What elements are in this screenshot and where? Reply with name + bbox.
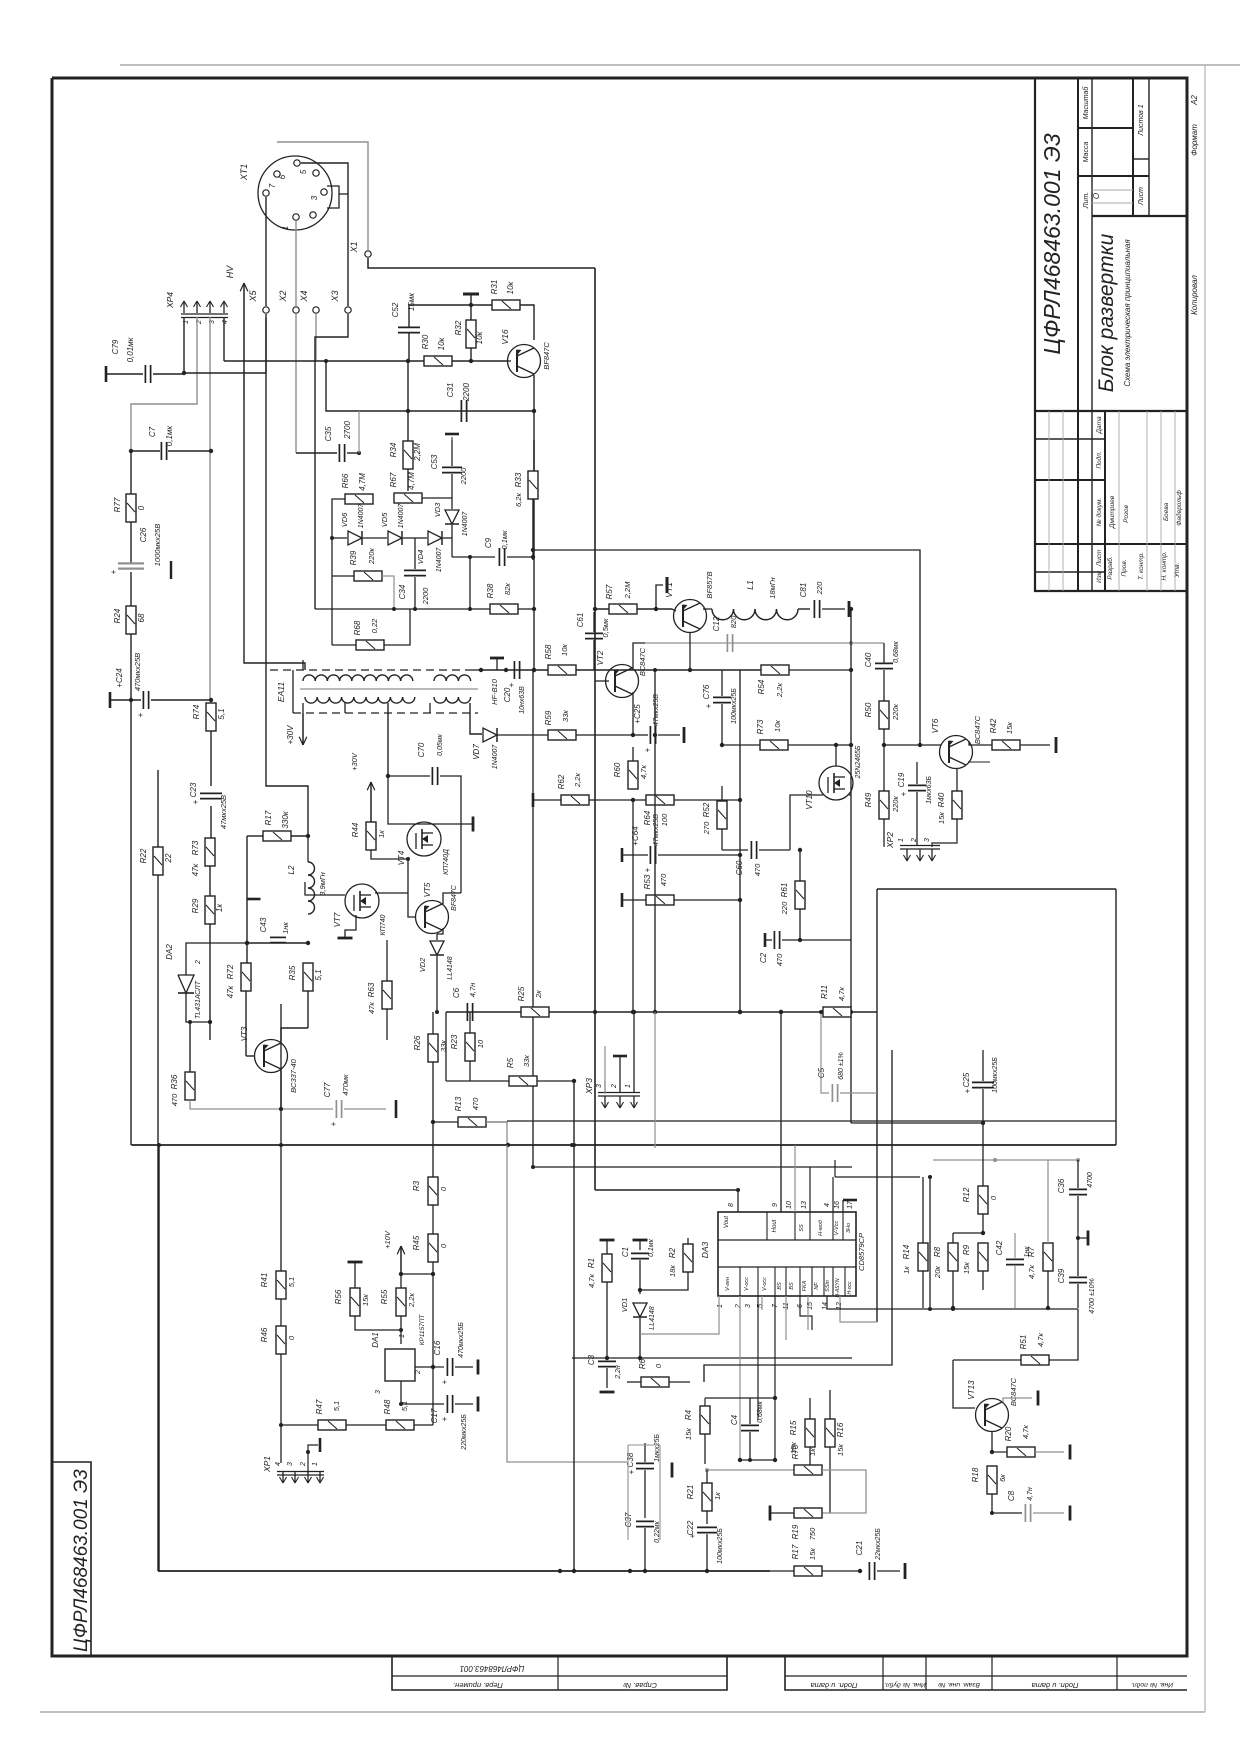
svg-text:R3: R3 bbox=[412, 1180, 421, 1191]
svg-text:Дмитриев: Дмитриев bbox=[1109, 495, 1116, 529]
wire bus y361 bbox=[224, 359, 508, 363]
wire FA11 tap5 to VD7 bbox=[470, 703, 482, 734]
wire R1 down bbox=[606, 1282, 608, 1358]
svg-text:R23: R23 bbox=[450, 1034, 459, 1049]
svg-text:С76: С76 bbox=[702, 684, 711, 699]
wire DA3 pin14 bbox=[826, 1296, 828, 1309]
svg-text:22мкх25Б: 22мкх25Б bbox=[875, 1528, 882, 1561]
svg-text:R60: R60 bbox=[613, 762, 622, 777]
XT1 pin (nc bottom) bbox=[310, 212, 316, 218]
resistor R1 bbox=[587, 1254, 612, 1288]
svg-text:15к: 15к bbox=[1005, 722, 1014, 734]
resistor R29 bbox=[191, 896, 224, 924]
capacitor C64 bbox=[622, 814, 742, 873]
wire FA11 top ends bbox=[473, 669, 478, 671]
svg-text:С43: С43 bbox=[259, 917, 268, 932]
svg-text:3: 3 bbox=[745, 1304, 752, 1308]
svg-text:68: 68 bbox=[137, 613, 146, 622]
svg-text:С70: С70 bbox=[417, 742, 426, 757]
resistor R66 bbox=[332, 473, 373, 530]
resistor R26 bbox=[413, 1034, 448, 1062]
diode VD6 bbox=[340, 503, 365, 545]
svg-text:Формат: Формат bbox=[1190, 124, 1199, 156]
svg-text:LL4148: LL4148 bbox=[649, 1306, 656, 1329]
ground C1 top bbox=[633, 1240, 648, 1250]
svg-text:R57: R57 bbox=[605, 584, 614, 599]
svg-text:1N4007: 1N4007 bbox=[398, 503, 405, 529]
wire DA3 pin7 bbox=[774, 1296, 776, 1460]
resistor R58 bbox=[544, 644, 576, 675]
capacitor C16 bbox=[433, 1322, 478, 1385]
svg-text:R73: R73 bbox=[756, 719, 765, 734]
svg-text:С53: С53 bbox=[430, 454, 439, 469]
svg-text:Подп. и дата: Подп. и дата bbox=[811, 1681, 858, 1690]
wire x892 long bbox=[704, 1050, 892, 1382]
svg-text:LL4148: LL4148 bbox=[447, 956, 454, 979]
svg-text:VT6: VT6 bbox=[931, 718, 940, 733]
svg-text:R1: R1 bbox=[587, 1258, 596, 1268]
svg-text:2,2М: 2,2М bbox=[413, 443, 422, 462]
svg-text:33к: 33к bbox=[522, 1055, 531, 1067]
capacitor C17 bbox=[401, 1395, 478, 1451]
svg-text:2: 2 bbox=[300, 1462, 307, 1467]
svg-text:2: 2 bbox=[911, 838, 918, 843]
resistor R6 bbox=[627, 1358, 690, 1387]
svg-text:+10V: +10V bbox=[383, 1230, 392, 1249]
svg-text:С8: С8 bbox=[1007, 1490, 1016, 1501]
svg-text:Х2: Х2 bbox=[278, 290, 288, 302]
wire XP2 links bbox=[884, 840, 957, 847]
svg-text:Разраб.: Разраб. bbox=[1106, 556, 1114, 580]
svg-text:10к: 10к bbox=[475, 330, 484, 344]
capacitor C35 bbox=[296, 411, 361, 462]
svg-text:Изм: Изм bbox=[1096, 570, 1103, 583]
wire x408 link bbox=[407, 361, 409, 411]
svg-text:6к: 6к bbox=[998, 1474, 1007, 1482]
svg-text:0: 0 bbox=[989, 1195, 998, 1200]
svg-text:R7: R7 bbox=[1027, 1246, 1036, 1257]
svg-text:SSin: SSin bbox=[825, 1280, 831, 1292]
svg-text:5: 5 bbox=[299, 169, 308, 174]
svg-text:С2: С2 bbox=[759, 952, 768, 963]
capacitor C7 bbox=[129, 425, 213, 460]
svg-text:С34: С34 bbox=[398, 584, 407, 599]
svg-text:R33: R33 bbox=[514, 472, 523, 487]
resistor R15 bbox=[789, 1398, 815, 1470]
wire y1123 row bbox=[851, 1122, 983, 1124]
wire V16 emitter to bus bbox=[533, 375, 535, 411]
margin note Kopiroval / Format A2 bbox=[1190, 95, 1199, 315]
wire y800 row bbox=[533, 793, 742, 807]
svg-text:2: 2 bbox=[735, 1304, 742, 1309]
wire VT5 collector-emitter bbox=[437, 893, 461, 934]
svg-text:О: О bbox=[1092, 193, 1101, 199]
svg-text:R51: R51 bbox=[1019, 1335, 1028, 1350]
wire x159 long bbox=[158, 1145, 160, 1571]
capacitor C6 bbox=[452, 983, 477, 1021]
svg-text:H-мод: H-мод bbox=[818, 1220, 824, 1236]
svg-text:ХР1: ХР1 bbox=[262, 1456, 272, 1473]
svg-text:VT7: VT7 bbox=[333, 912, 342, 927]
resistor R31 bbox=[471, 280, 534, 340]
ground C36 bbox=[1076, 1231, 1088, 1246]
svg-text:470: 470 bbox=[170, 1093, 179, 1106]
svg-text:R70: R70 bbox=[791, 1444, 800, 1459]
resistor R17a bbox=[247, 810, 310, 841]
wire VT6 emitter-collector bbox=[968, 741, 992, 762]
capacitor C61 bbox=[576, 612, 610, 670]
resistor R60 bbox=[613, 747, 648, 789]
wire VT3 collector bbox=[281, 991, 308, 1042]
svg-text:2200: 2200 bbox=[462, 383, 471, 402]
wire R22 top stub bbox=[157, 770, 159, 847]
svg-text:Х5: Х5 bbox=[248, 290, 258, 303]
svg-text:ХТ1: ХТ1 bbox=[239, 164, 249, 182]
capacitor C4 bbox=[730, 1398, 764, 1462]
svg-text:BF847C: BF847C bbox=[542, 342, 551, 370]
capacitor C1 bbox=[621, 1238, 655, 1294]
svg-text:H-ASYN: H-ASYN bbox=[835, 1278, 841, 1297]
HV supply arrow bbox=[225, 265, 248, 400]
ground above VT1 bbox=[654, 577, 667, 611]
capacitor C26 bbox=[109, 524, 171, 606]
resistor R5 bbox=[446, 1055, 576, 1086]
resistor R2 bbox=[638, 1238, 693, 1292]
capacitor C52 bbox=[391, 292, 471, 361]
svg-text:1к: 1к bbox=[377, 830, 386, 838]
svg-text:R18: R18 bbox=[971, 1467, 980, 1482]
wire XP3 risers bbox=[605, 1010, 636, 1092]
wire C38 frame bbox=[628, 1445, 660, 1540]
wire R41-R46 bbox=[280, 1299, 282, 1326]
svg-text:+: + bbox=[963, 1088, 972, 1093]
wire X2 down bbox=[295, 314, 297, 453]
wire VT4 top row bbox=[388, 776, 473, 832]
wire XT1 pin7 to X5 bbox=[265, 197, 267, 306]
resistor R9 bbox=[962, 1243, 988, 1290]
resistor R22 bbox=[139, 847, 173, 875]
capacitor C24 bbox=[110, 653, 213, 717]
svg-text:0,5мк: 0,5мк bbox=[601, 618, 610, 638]
svg-text:С22: С22 bbox=[686, 1520, 695, 1535]
capacitor C12 bbox=[712, 615, 738, 652]
svg-text:4,7к: 4,7к bbox=[1036, 1333, 1045, 1347]
svg-text:С5: С5 bbox=[817, 1067, 826, 1078]
ic DA3 bbox=[700, 1200, 866, 1310]
wire DA3 pin13 bbox=[809, 1167, 811, 1212]
resistor R8 bbox=[933, 1233, 958, 1310]
ground VT7 bbox=[338, 915, 357, 938]
svg-text:0,01мк: 0,01мк bbox=[126, 336, 135, 362]
wire gray frame right bbox=[933, 1158, 1080, 1162]
svg-text:+: + bbox=[440, 1416, 449, 1421]
svg-text:КР1157ПТ: КР1157ПТ bbox=[419, 1314, 426, 1346]
transistor VT6 bbox=[931, 715, 982, 768]
resistor R54 bbox=[757, 665, 789, 698]
svg-text:Лит.: Лит. bbox=[1083, 192, 1090, 209]
wire left bus x131 bbox=[130, 451, 132, 494]
svg-text:2к: 2к bbox=[534, 990, 543, 999]
svg-text:ЦФРЛ468463.001 Э3: ЦФРЛ468463.001 Э3 bbox=[1039, 133, 1065, 354]
wire V16 base bbox=[508, 360, 511, 362]
ic DA2 (TL431) bbox=[165, 944, 202, 1019]
resistor R35 bbox=[288, 963, 323, 991]
capacitor C22 bbox=[686, 1520, 724, 1573]
wire VT1 base bbox=[672, 609, 676, 611]
svg-text:Vout: Vout bbox=[724, 1216, 730, 1228]
svg-text:Схема электрическая принципиал: Схема электрическая принципиальная bbox=[1123, 239, 1132, 387]
svg-text:1N4007: 1N4007 bbox=[358, 503, 365, 529]
svg-text:R39: R39 bbox=[349, 550, 358, 565]
svg-text:R74: R74 bbox=[192, 704, 201, 719]
svg-text:0,1мк: 0,1мк bbox=[500, 530, 509, 550]
svg-text:R16: R16 bbox=[836, 1422, 845, 1437]
resistor R73b bbox=[756, 719, 788, 750]
svg-text:R19: R19 bbox=[791, 1524, 800, 1539]
svg-text:R38: R38 bbox=[486, 583, 495, 598]
svg-text:С21: С21 bbox=[855, 1541, 864, 1556]
svg-text:VD7: VD7 bbox=[472, 744, 481, 760]
resistor R16 bbox=[825, 1390, 845, 1513]
svg-text:VT1: VT1 bbox=[664, 582, 674, 598]
svg-text:4700 ±10%: 4700 ±10% bbox=[1089, 1278, 1096, 1313]
wire R26 to R13 bbox=[431, 1062, 435, 1177]
capacitor C43 bbox=[247, 917, 310, 945]
svg-text:18мГн: 18мГн bbox=[768, 577, 777, 598]
wire x131 further down bbox=[130, 700, 132, 1145]
resistor R33 bbox=[514, 440, 538, 560]
resistor R34 bbox=[389, 411, 422, 491]
resistor R45 bbox=[412, 1234, 448, 1262]
svg-text:R29: R29 bbox=[191, 898, 200, 913]
svg-text:3: 3 bbox=[375, 1390, 382, 1394]
svg-text:FKA: FKA bbox=[802, 1280, 808, 1291]
svg-text:Фадерольф: Фадерольф bbox=[1175, 490, 1183, 526]
svg-text:С7: С7 bbox=[148, 426, 157, 437]
svg-text:15к: 15к bbox=[684, 1428, 693, 1440]
svg-text:R13: R13 bbox=[454, 1096, 463, 1111]
wire DA3 pin2 bbox=[739, 1296, 741, 1460]
capacitor C25b bbox=[962, 1050, 999, 1125]
svg-text:С6: С6 bbox=[452, 987, 461, 998]
svg-text:ВС847С: ВС847С bbox=[1009, 1377, 1018, 1406]
svg-text:4,7н: 4,7н bbox=[1027, 1487, 1034, 1501]
wire FA11 tap2 down bbox=[344, 703, 346, 713]
svg-text:+: + bbox=[643, 747, 652, 752]
resistor R52 bbox=[702, 786, 727, 835]
svg-text:470: 470 bbox=[753, 863, 762, 876]
svg-text:1N4007: 1N4007 bbox=[492, 744, 499, 770]
ground DA3 pin17 bbox=[843, 1200, 857, 1212]
svg-text:ВС337-40: ВС337-40 bbox=[289, 1058, 298, 1092]
ground XP1 bbox=[306, 1438, 320, 1473]
wire x595 long bus bbox=[594, 268, 596, 1190]
svg-text:15к: 15к bbox=[808, 1548, 817, 1560]
capacitor C53 bbox=[430, 434, 468, 498]
svg-text:750: 750 bbox=[808, 1527, 817, 1540]
wire R45 down bbox=[432, 1262, 434, 1274]
XT1 pin 1 bbox=[281, 214, 299, 230]
resistor R67 bbox=[389, 472, 422, 503]
svg-text:С25: С25 bbox=[962, 1072, 971, 1087]
svg-text:4700: 4700 bbox=[1087, 1172, 1094, 1188]
svg-text:VD1: VD1 bbox=[620, 1298, 629, 1313]
wire X5 long down bbox=[266, 318, 308, 836]
svg-text:R8: R8 bbox=[933, 1246, 942, 1257]
svg-text:470: 470 bbox=[775, 953, 784, 966]
wire VT2 emitter bbox=[632, 692, 634, 735]
svg-text:С4: С4 bbox=[730, 1414, 739, 1425]
svg-text:ХР2: ХР2 bbox=[885, 832, 895, 849]
svg-text:220мкх25Б: 220мкх25Б bbox=[461, 1414, 468, 1451]
svg-text:1к: 1к bbox=[902, 1266, 911, 1274]
svg-text:R66: R66 bbox=[341, 473, 350, 488]
svg-text:220к: 220к bbox=[367, 548, 376, 566]
svg-text:R5: R5 bbox=[506, 1057, 515, 1068]
svg-text:R2: R2 bbox=[668, 1247, 677, 1258]
wire VT1 emitter down bbox=[689, 632, 691, 670]
resistor R70 bbox=[791, 1444, 866, 1513]
svg-text:10: 10 bbox=[786, 1201, 793, 1209]
svg-text:Подп. и дата: Подп. и дата bbox=[1032, 1681, 1079, 1690]
svg-text:Блок развертки: Блок развертки bbox=[1095, 233, 1118, 392]
wire VD2 down bbox=[435, 956, 439, 1014]
svg-text:+: + bbox=[191, 799, 200, 804]
wire x633 bus bbox=[632, 800, 634, 1012]
resistor R57 bbox=[605, 581, 637, 614]
svg-text:С3: С3 bbox=[587, 1354, 596, 1365]
svg-text:А2: А2 bbox=[1190, 95, 1199, 106]
svg-text:+30V: +30V bbox=[350, 752, 359, 771]
wire R29 down bbox=[209, 924, 211, 1040]
capacitor C79 bbox=[106, 336, 184, 383]
svg-text:15к: 15к bbox=[361, 1294, 370, 1306]
svg-text:1: 1 bbox=[898, 838, 905, 842]
svg-text:С19: С19 bbox=[897, 772, 906, 787]
svg-text:С16: С16 bbox=[433, 1340, 442, 1355]
transistor VT5 bbox=[416, 882, 459, 933]
svg-text:270: 270 bbox=[702, 821, 711, 835]
svg-text:470: 470 bbox=[659, 873, 668, 886]
resistor R77 bbox=[113, 494, 146, 522]
svg-text:С77: С77 bbox=[323, 1082, 332, 1097]
svg-text:Взам. инв. №: Взам. инв. № bbox=[938, 1681, 980, 1688]
svg-text:220: 220 bbox=[780, 901, 789, 915]
transistor VT1 bbox=[664, 571, 714, 632]
capacitor C40 bbox=[864, 640, 900, 701]
svg-text:8: 8 bbox=[728, 1203, 735, 1207]
wire bus y1145 bbox=[132, 1143, 1116, 1147]
wire x655 bus bbox=[653, 668, 657, 1012]
svg-text:R52: R52 bbox=[702, 802, 711, 817]
svg-text:4: 4 bbox=[824, 1203, 831, 1207]
wire DA3 pin15 bbox=[807, 1296, 809, 1330]
resistor R18 bbox=[971, 1466, 1007, 1515]
svg-text:С52: С52 bbox=[391, 302, 400, 317]
wire VT2 collector bbox=[633, 643, 645, 668]
wire y1470 row bbox=[705, 1468, 794, 1472]
svg-text:+: + bbox=[109, 569, 118, 574]
svg-text:2700: 2700 bbox=[343, 421, 352, 440]
svg-text:+: + bbox=[899, 791, 908, 796]
svg-text:VT5: VT5 bbox=[423, 882, 432, 897]
svg-text:0: 0 bbox=[287, 1335, 296, 1340]
wire diode row links bbox=[330, 530, 452, 576]
diode VD1 bbox=[620, 1298, 656, 1358]
capacitor C37 bbox=[624, 1512, 661, 1573]
transistor VT3 bbox=[240, 1026, 298, 1093]
svg-text:10нх63В: 10нх63В bbox=[519, 686, 526, 714]
wire VT2 base bbox=[595, 680, 609, 682]
svg-text:R44: R44 bbox=[351, 822, 360, 837]
svg-text:+: + bbox=[643, 867, 652, 872]
wire XT1 pin5 to X3 bbox=[301, 163, 348, 306]
svg-text:Лист: Лист bbox=[1096, 549, 1103, 567]
resistor R14 bbox=[902, 1177, 928, 1308]
wire x533 long bbox=[532, 670, 534, 1167]
diode VD5 bbox=[380, 503, 405, 545]
svg-text:10к: 10к bbox=[437, 336, 446, 350]
svg-text:С39: С39 bbox=[1057, 1268, 1066, 1283]
capacitor C77 bbox=[323, 1074, 396, 1126]
wire x870 long bbox=[876, 889, 878, 1322]
svg-text:R11: R11 bbox=[820, 985, 829, 999]
svg-text:R21: R21 bbox=[686, 1485, 695, 1500]
wire x851 bus bbox=[849, 609, 853, 1123]
svg-text:0,1мк: 0,1мк bbox=[648, 1238, 655, 1257]
svg-text:Листов 1: Листов 1 bbox=[1138, 104, 1145, 136]
svg-text:7: 7 bbox=[268, 183, 277, 188]
svg-text:5,1: 5,1 bbox=[287, 1277, 296, 1287]
capacitor C31 bbox=[446, 383, 471, 422]
svg-text:2: 2 bbox=[195, 960, 202, 965]
wire bus y1571 bbox=[158, 1569, 770, 1573]
wire x1116 down bbox=[1115, 889, 1117, 1145]
svg-text:С38: С38 bbox=[626, 1452, 635, 1467]
svg-text:15к: 15к bbox=[836, 1444, 845, 1456]
capacitor C25 bbox=[633, 694, 684, 753]
svg-text:С81: С81 bbox=[799, 583, 808, 598]
svg-text:С31: С31 bbox=[446, 383, 455, 398]
wire DA1 pin3 down bbox=[399, 1381, 403, 1406]
wire DA3 pin10 bbox=[794, 1145, 796, 1212]
svg-text:3: 3 bbox=[924, 838, 931, 842]
svg-text:4: 4 bbox=[275, 1462, 282, 1466]
wire XP4.3 down bbox=[209, 317, 211, 700]
capacitor C8 bbox=[992, 1487, 1070, 1522]
wire R26 top bbox=[432, 1012, 434, 1034]
svg-text:470мк: 470мк bbox=[341, 1074, 350, 1096]
diode VD7 bbox=[472, 728, 499, 769]
svg-text:TL431АСЛТ: TL431АСЛТ bbox=[195, 980, 202, 1019]
svg-text:R31: R31 bbox=[490, 280, 499, 295]
capacitor C70 bbox=[386, 733, 461, 824]
svg-text:HV: HV bbox=[225, 265, 235, 278]
wire y1398 row bbox=[705, 1396, 777, 1400]
svg-text:220к: 220к bbox=[891, 796, 900, 814]
svg-text:ВС847С: ВС847С bbox=[638, 647, 647, 676]
svg-text:BF847C: BF847C bbox=[451, 884, 458, 911]
svg-text:4,7к: 4,7к bbox=[587, 1274, 596, 1288]
svg-text:V-осс: V-осс bbox=[762, 1277, 768, 1291]
svg-text:R17: R17 bbox=[791, 1544, 800, 1559]
svg-text:Х1: Х1 bbox=[349, 241, 359, 253]
svg-text:20к: 20к bbox=[933, 1266, 942, 1279]
connector XP1 bbox=[262, 1456, 324, 1483]
svg-text:Hout: Hout bbox=[772, 1219, 778, 1232]
svg-text:С9: С9 bbox=[484, 537, 493, 548]
svg-text:R67: R67 bbox=[389, 472, 398, 487]
